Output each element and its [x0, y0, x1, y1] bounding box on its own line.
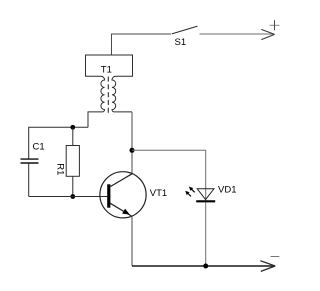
LED emission arrow 1 — [191, 189, 195, 192]
plus sign — [270, 24, 280, 26]
wire: R1 leads — [72, 127, 74, 196]
wire: emitter down to bottom rail — [131, 216, 133, 266]
node: junction collector / LED branch — [130, 148, 135, 153]
arrowhead minus terminal — [260, 261, 275, 272]
transformer left winding — [88, 76, 105, 127]
LED VD1 triangle — [197, 189, 214, 200]
wire: branch to LED — [132, 150, 206, 201]
wire: left winding lead to C1/R1 rail — [29, 127, 88, 196]
wire: base rail C1 to transistor — [29, 196, 108, 198]
transformer T1 box — [86, 55, 133, 76]
wire: bottom rail to minus arrow — [132, 265, 274, 267]
minus sign — [271, 256, 280, 258]
node: R1 bottom junction — [70, 194, 75, 199]
switch S1 blade — [172, 26, 198, 34]
capacitor C1 plates — [21, 159, 39, 163]
node: R1 top junction — [70, 125, 75, 130]
svg-text:VD1: VD1 — [218, 185, 236, 196]
svg-text:VT1: VT1 — [150, 188, 167, 199]
wire: T1 top lead up and right to switch — [112, 34, 172, 55]
transistor VT1 collector stroke — [110, 174, 132, 187]
wire: switch to plus arrow — [200, 33, 274, 35]
transistor VT1 base bar — [107, 184, 110, 207]
transistor VT1 circle — [100, 172, 146, 218]
transformer right winding — [112, 76, 132, 112]
node: LED / bottom rail junction — [203, 264, 208, 269]
wire: right winding down to collector — [131, 112, 133, 174]
LED VD1 cathode bar — [196, 200, 215, 202]
svg-text:T1: T1 — [101, 65, 112, 76]
transistor VT1 emitter stroke — [110, 203, 131, 216]
transformer core (dashed) — [107, 77, 109, 115]
svg-text:R1: R1 — [54, 163, 65, 175]
LED emission arrow 2 — [188, 193, 192, 196]
transistor VT1 emitter arrow — [122, 209, 130, 215]
wire: LED cathode down to bottom rail — [205, 202, 207, 266]
resistor R1 — [66, 146, 79, 177]
svg-text:S1: S1 — [175, 37, 187, 48]
arrowhead plus terminal — [261, 29, 274, 39]
svg-text:C1: C1 — [33, 142, 45, 153]
